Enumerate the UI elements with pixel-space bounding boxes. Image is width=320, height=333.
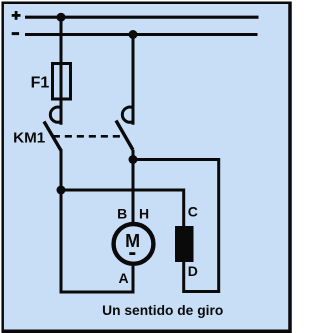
contactor KM1 right pole moving blade <box>116 121 133 151</box>
svg-text:B: B <box>117 206 127 222</box>
svg-text:D: D <box>188 263 198 279</box>
wire motor branch (KM1 right pole to motor terminal B-H) <box>132 150 135 223</box>
motor M (DC motor circle) <box>114 224 154 264</box>
svg-text:A: A <box>118 270 128 286</box>
field winding C-D (solid bar) <box>175 226 194 262</box>
node - (negative supply terminal label) <box>12 32 19 35</box>
wire + supply rail <box>25 16 259 19</box>
wire tie from winding terminal C to left branch junction <box>61 190 184 226</box>
node + (positive supply terminal label) <box>12 11 21 20</box>
junction dot on + rail <box>57 13 66 22</box>
junction dot on left branch (tie to winding C) <box>57 186 66 195</box>
contactor KM1 left pole moving blade <box>44 122 61 151</box>
svg-text:C: C <box>188 204 198 220</box>
svg-text:KM1: KM1 <box>13 129 46 146</box>
fuse F1 <box>53 64 71 100</box>
svg-text:F1: F1 <box>31 74 50 91</box>
KM1 mechanical linkage (dashed) <box>53 135 120 138</box>
contactor KM1 left pole fixed contact hook <box>50 107 60 122</box>
svg-text:Un sentido de giro: Un sentido de giro <box>102 303 223 318</box>
svg-text:M: M <box>125 231 140 251</box>
wire right outer loop (to winding terminal D) <box>133 160 219 292</box>
wire right branch (from - rail down to KM1 right contact) <box>132 35 135 125</box>
svg-text:H: H <box>139 206 149 222</box>
wire - supply rail <box>25 33 258 36</box>
wire left branch down, along bottom, up to motor terminal A <box>61 149 133 292</box>
junction dot on - rail <box>129 30 138 39</box>
motor DC polarity mark - <box>129 252 135 255</box>
wire fuse branch (from + rail down through F1 to KM1 left contact) <box>60 17 63 125</box>
junction dot below KM1 right pole <box>129 155 138 164</box>
contactor KM1 right pole fixed contact hook <box>122 107 132 122</box>
